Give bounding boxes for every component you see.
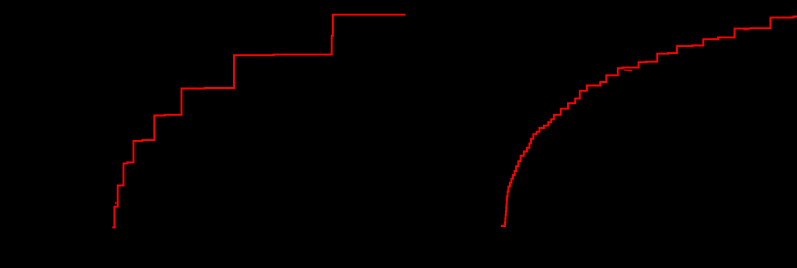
overlapping second-curve dash near x=626 on right curve <box>624 70 632 71</box>
censor tick bump on right curve at x=784.5 <box>783 16 785 17</box>
left ECDF step curve <box>112 15 405 228</box>
second-curve dash below line near x=746 on right curve <box>744 29 749 32</box>
censor tick bump on left curve at x=127.5 <box>127 161 129 162</box>
censor tick bump on left curve at x=116 <box>115 202 117 204</box>
censor tick bump on right curve at x=694 <box>693 44 695 45</box>
right ECDF step curve <box>501 17 797 227</box>
censor tick bump on right curve at x=714.5 <box>713 38 715 39</box>
